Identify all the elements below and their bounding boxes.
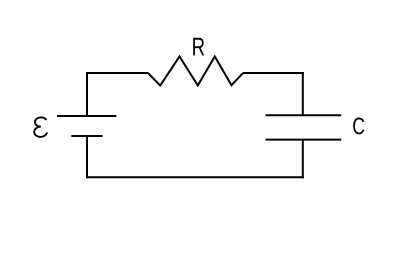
wire top-right horizontal lead [243, 72, 304, 74]
wire bottom horizontal [86, 176, 304, 178]
wire left vertical from battery bottom [86, 136, 88, 178]
wire right vertical to capacitor top [302, 72, 304, 115]
battery B1 long plate (positive) [57, 115, 116, 117]
battery B1 short plate (negative) [71, 135, 102, 137]
wire right vertical from capacitor bottom [302, 140, 304, 179]
label epsilon (EMF) drawn as path [34, 117, 47, 136]
wire top-left horizontal lead [86, 72, 148, 74]
capacitor C1 bottom plate [266, 139, 342, 141]
wire top-left vertical from battery to top wire [86, 73, 88, 116]
capacitor C1 top plate [266, 114, 342, 116]
resistor R1 zigzag [148, 57, 243, 86]
label C (capacitor) [353, 118, 364, 135]
label R (resistor) [193, 38, 204, 56]
